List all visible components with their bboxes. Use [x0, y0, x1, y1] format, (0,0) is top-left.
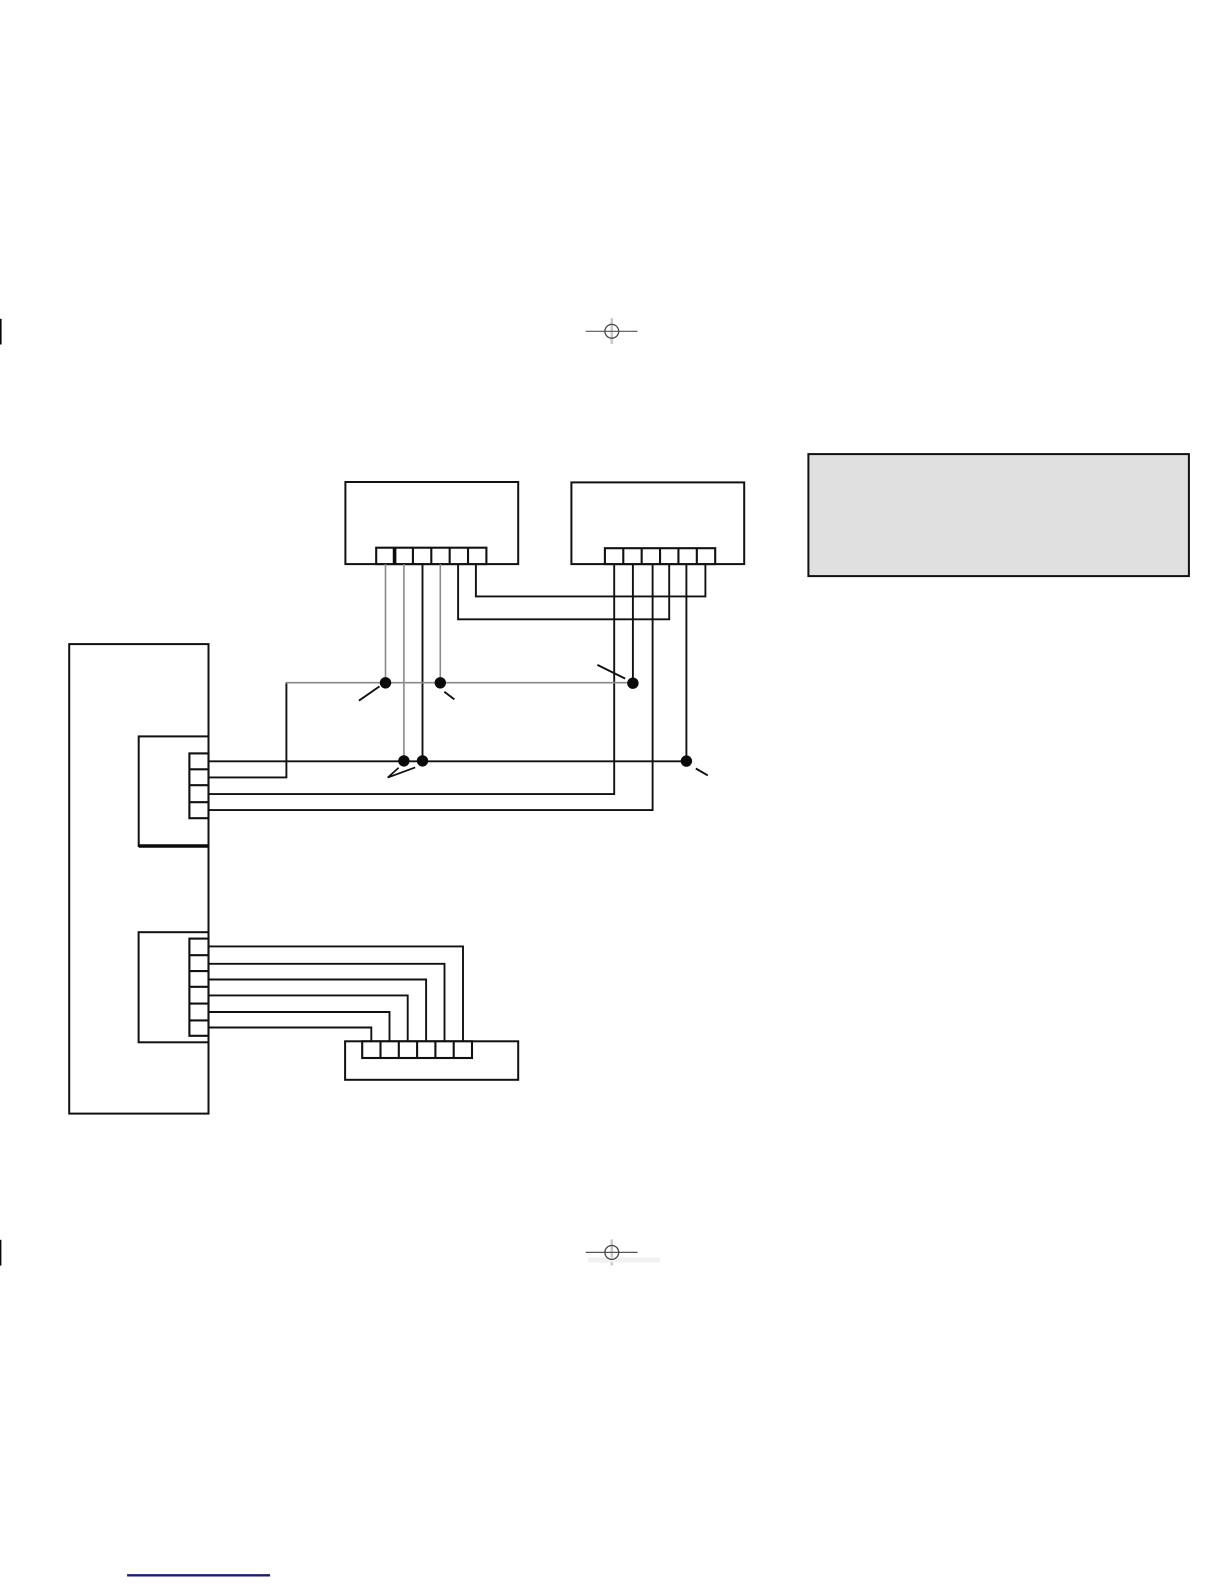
leader line at node J1 — [359, 686, 380, 700]
wire CN1 pin1 bus to node J6 — [209, 760, 687, 762]
registration mark bottom: horizontal line — [586, 1251, 638, 1253]
connector CN1 thick bottom edge — [139, 844, 209, 847]
wire TB-A pin2 to node J4 (gray) — [403, 564, 405, 761]
wire TB-B pin5 to node J6 — [685, 564, 687, 761]
connector CN3 pin strip (6 cells) — [362, 1041, 472, 1058]
connector CN1 pin column (4 cells) — [189, 753, 208, 818]
leader line at node J6 — [696, 769, 708, 776]
terminal strip TB-B (6 cells) — [605, 548, 715, 564]
wire TB-B pin3 to CN1 pin4 — [209, 564, 653, 810]
wire TB-B pin2 to node J3 — [632, 564, 634, 683]
wire CN2 pin1 to CN3 pin6 — [209, 946, 464, 1042]
wire CN1 pin2 riser — [209, 683, 287, 778]
leader line at node J2 — [444, 692, 454, 700]
wire CN2 pin3 to CN3 pin4 — [209, 980, 427, 1043]
node J6 junction dot — [681, 755, 692, 766]
module box B (top right unit) — [571, 482, 744, 564]
registration mark bottom: ghost smudge — [588, 1258, 660, 1263]
footer rule (navy) — [127, 1574, 270, 1576]
registration mark top: circle — [605, 324, 619, 338]
connector CN2 housing (lower) — [139, 932, 209, 1042]
connector CN2 pin column (6 cells) — [189, 939, 208, 1036]
terminal strip TB-A thick divider pin1/pin2 — [393, 548, 397, 564]
terminal strip TB-A (6 cells) — [376, 548, 486, 564]
note box (gray callout panel) — [808, 454, 1189, 576]
registration mark bottom: circle — [605, 1246, 619, 1260]
leader line at node J3 — [597, 665, 625, 679]
node J1 junction dot — [380, 677, 391, 688]
node J5 junction dot — [417, 755, 428, 766]
wire TB-A pin5 to TB-B pin4 — [458, 564, 669, 619]
wire CN2 pin4 to CN3 pin3 — [209, 995, 408, 1042]
wire CN2 pin2 to CN3 pin5 — [209, 964, 445, 1042]
wire CN2 pin6 to CN3 pin1 — [209, 1028, 372, 1043]
registration mark bottom: vertical light bar — [610, 1239, 613, 1265]
wire TB-A pin3 to node J5 — [422, 564, 424, 761]
crop tick left top — [0, 319, 2, 345]
node J2 junction dot — [435, 677, 446, 688]
leader arrow at nodes J4/J5 — [388, 767, 416, 777]
wire TB-A pin6 to TB-B pin6 — [476, 564, 706, 596]
crop tick left bottom — [0, 1240, 1, 1266]
wire bus to node J3 (gray) — [286, 682, 633, 684]
wire TB-A pin4 to node J2 (gray) — [439, 564, 441, 683]
registration mark top: vertical light bar — [610, 318, 613, 344]
wire CN2 pin5 to CN3 pin2 — [209, 1012, 390, 1042]
main chassis box (left) — [69, 644, 208, 1114]
wire TB-B pin1 to CN1 pin3 — [209, 564, 615, 794]
node J3 junction dot — [627, 678, 638, 689]
module box A (top left unit) — [345, 482, 518, 564]
connector CN1 housing (upper) — [139, 736, 209, 846]
node J4 junction dot — [398, 755, 409, 766]
registration mark top: horizontal line — [586, 330, 638, 332]
wire TB-A pin1 to node J1 (gray) — [385, 564, 387, 683]
connector CN3 box (bottom) — [345, 1041, 518, 1080]
